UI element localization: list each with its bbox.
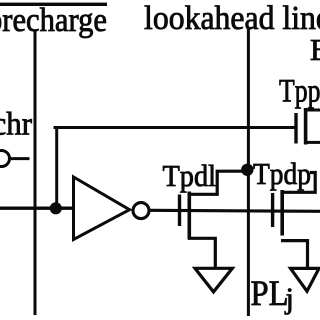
transistor Tpdl gate bar: [178, 195, 181, 227]
wire: branch vertical from gate wire down to input node: [55, 126, 58, 209]
junction dot at input node: [50, 202, 62, 214]
wire: precharge vertical line: [34, 30, 37, 316]
wire: Tpdp drain arm hook: [281, 173, 315, 193]
wire: horizontal gate wire to Tppr: [54, 126, 295, 129]
svg-text:Tppr: Tppr: [279, 73, 320, 109]
svg-text:j: j: [285, 282, 294, 315]
ground symbol below Tpdp: [291, 268, 320, 291]
wire: Tpdl drain arm up to lookahead line junction: [188, 171, 245, 194]
wire: Tpdp source arm down to ground: [281, 241, 308, 268]
svg-text:Tpdl: Tpdl: [163, 159, 217, 193]
ground symbol below Tpdl: [195, 268, 232, 292]
transistor Tpdp channel bar: [280, 190, 284, 236]
inverter U1 output bubble: [133, 203, 149, 219]
inverter U1 triangle: [74, 177, 130, 240]
junction dot on lookahead line: [241, 164, 253, 176]
svg-text:Tpdp: Tpdp: [253, 156, 311, 191]
wire: lookahead vertical line: [247, 28, 250, 316]
svg-text:PL: PL: [251, 273, 289, 313]
wire: inverter output to gates (runs to right edge): [149, 210, 320, 211]
net precharge: overbar: [0, 3, 107, 6]
input bubble of pchr (cut off at left): [0, 151, 10, 167]
wire: main horizontal input wire: [0, 206, 75, 209]
svg-text:B: B: [310, 32, 320, 67]
transistor Tpdl channel bar: [188, 192, 192, 240]
wire: Tppr source stub (cut off at right): [304, 141, 320, 144]
svg-text:chr: chr: [0, 107, 32, 143]
wire: Tpdl source arm down to ground: [188, 238, 215, 267]
wire: Tppr drain stub (cut off at right): [304, 109, 320, 112]
transistor Tpdp gate bar: [271, 193, 274, 227]
wire: pchr stub: [10, 157, 30, 160]
transistor Tppr channel bar: [304, 108, 308, 145]
svg-text:lookahead line: lookahead line: [144, 0, 320, 37]
transistor Tppr gate bar: [294, 113, 297, 144]
svg-text:precharge: precharge: [0, 2, 107, 39]
